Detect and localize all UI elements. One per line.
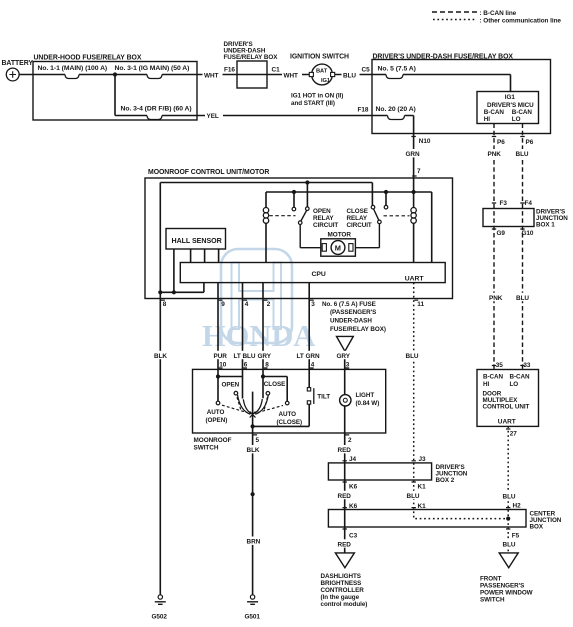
svg-text:C3: C3	[349, 532, 358, 539]
svg-text:MOONROOF CONTROL UNIT/MOTOR: MOONROOF CONTROL UNIT/MOTOR	[148, 169, 269, 176]
svg-text:8: 8	[265, 362, 269, 369]
svg-text:IGNITION SWITCH: IGNITION SWITCH	[290, 53, 349, 60]
svg-text:FRONT: FRONT	[480, 575, 502, 582]
svg-text:GRY: GRY	[337, 353, 351, 360]
svg-text:FUSE/RELAY BOX): FUSE/RELAY BOX)	[330, 326, 386, 333]
svg-text:4: 4	[311, 362, 315, 369]
svg-text:7: 7	[417, 168, 421, 175]
svg-text:RED: RED	[338, 493, 352, 500]
svg-text:PUR: PUR	[214, 353, 228, 360]
svg-text:G501: G501	[245, 613, 261, 620]
svg-text:UART: UART	[498, 418, 516, 425]
svg-text:K1: K1	[418, 484, 427, 491]
svg-text:POWER WINDOW: POWER WINDOW	[480, 589, 533, 596]
svg-text:: B-CAN line: : B-CAN line	[480, 10, 517, 17]
svg-text:3: 3	[346, 362, 350, 369]
svg-text:BLU: BLU	[406, 353, 419, 360]
svg-text:GRY: GRY	[258, 353, 272, 360]
svg-text:MOTOR: MOTOR	[328, 232, 352, 239]
svg-text:MOONROOF: MOONROOF	[194, 437, 232, 444]
svg-text:TILT: TILT	[317, 394, 330, 401]
svg-text:PNK: PNK	[489, 295, 503, 302]
svg-text:No. 5 (7.5 A): No. 5 (7.5 A)	[378, 65, 416, 72]
svg-text:(In the gauge: (In the gauge	[321, 594, 360, 601]
svg-text:UNDER-HOOD FUSE/RELAY BOX: UNDER-HOOD FUSE/RELAY BOX	[34, 55, 142, 62]
svg-text:RELAY: RELAY	[347, 215, 368, 222]
svg-text:9: 9	[221, 301, 225, 308]
svg-text:No. 6 (7.5 A) FUSE: No. 6 (7.5 A) FUSE	[322, 301, 376, 308]
svg-text:HONDA: HONDA	[202, 319, 315, 353]
svg-text:RED: RED	[338, 541, 352, 548]
svg-text:(OPEN): (OPEN)	[206, 417, 228, 424]
svg-text:LO: LO	[510, 381, 519, 388]
svg-text:11: 11	[417, 301, 424, 308]
svg-text:UNDER-DASH: UNDER-DASH	[330, 318, 372, 325]
svg-text:RED: RED	[338, 447, 352, 454]
svg-text:F4: F4	[525, 200, 533, 207]
svg-text:No. 1-1 (MAIN) (100 A): No. 1-1 (MAIN) (100 A)	[38, 65, 108, 72]
svg-text:LT BLU: LT BLU	[234, 353, 256, 360]
svg-text:(CLOSE): (CLOSE)	[277, 419, 303, 426]
svg-text:No. 20 (20 A): No. 20 (20 A)	[376, 106, 416, 113]
svg-text:H2: H2	[513, 503, 522, 510]
svg-text:2: 2	[348, 437, 352, 444]
svg-text:BOX: BOX	[530, 523, 544, 530]
svg-text:OPEN: OPEN	[222, 382, 240, 389]
svg-text:(PASSENGER'S: (PASSENGER'S	[330, 309, 376, 316]
svg-text:B-CAN: B-CAN	[484, 109, 505, 116]
svg-text:HALL SENSOR: HALL SENSOR	[172, 237, 222, 245]
svg-text:HI: HI	[483, 381, 489, 388]
svg-text:CLOSE: CLOSE	[347, 208, 368, 215]
svg-text:N10: N10	[419, 138, 431, 145]
svg-text:IG1 HOT in ON (II): IG1 HOT in ON (II)	[291, 92, 343, 99]
svg-text:BLU: BLU	[503, 541, 516, 548]
svg-text:F16: F16	[224, 66, 235, 73]
svg-text:LO: LO	[512, 116, 521, 123]
svg-text:K6: K6	[349, 484, 358, 491]
svg-text:P6: P6	[526, 139, 534, 146]
svg-text:AUTO: AUTO	[279, 411, 297, 418]
svg-text:BLK: BLK	[154, 353, 167, 360]
svg-text:G9: G9	[497, 230, 506, 237]
svg-text:K1: K1	[418, 503, 427, 510]
svg-text:CLOSE: CLOSE	[264, 381, 285, 388]
svg-text:BLU: BLU	[407, 493, 420, 500]
svg-text:35: 35	[496, 362, 504, 369]
svg-text:YEL: YEL	[207, 113, 219, 120]
svg-text:B-CAN: B-CAN	[512, 109, 533, 116]
svg-text:(0.84 W): (0.84 W)	[356, 400, 380, 407]
svg-text:4: 4	[245, 301, 249, 308]
svg-text:C1: C1	[272, 66, 281, 73]
svg-text:No. 3-1 (IG MAIN) (50 A): No. 3-1 (IG MAIN) (50 A)	[115, 65, 190, 72]
svg-text:27: 27	[510, 430, 518, 437]
svg-text:BOX 2: BOX 2	[436, 477, 455, 484]
svg-text:WHT: WHT	[284, 72, 299, 79]
svg-text:BRN: BRN	[247, 539, 261, 546]
svg-text:J3: J3	[419, 456, 427, 463]
svg-text:CONTROL UNIT: CONTROL UNIT	[483, 403, 530, 410]
svg-text:PNK: PNK	[488, 151, 502, 158]
svg-text:SWITCH: SWITCH	[194, 444, 219, 451]
svg-text:F18: F18	[358, 106, 369, 113]
svg-text:5: 5	[256, 437, 260, 444]
svg-text:and START (III): and START (III)	[291, 100, 335, 107]
svg-text:G10: G10	[522, 230, 534, 237]
svg-text:BLK: BLK	[247, 447, 260, 454]
svg-text:CPU: CPU	[312, 271, 326, 278]
svg-text:C5: C5	[362, 67, 371, 74]
svg-text:WHT: WHT	[204, 72, 219, 79]
svg-text:F5: F5	[512, 532, 520, 539]
svg-text:10: 10	[219, 362, 227, 369]
svg-text:BLU: BLU	[516, 151, 529, 158]
svg-text:UART: UART	[405, 275, 425, 282]
svg-text:BOX 1: BOX 1	[536, 221, 555, 228]
svg-text:GRN: GRN	[406, 151, 420, 158]
svg-text:2: 2	[267, 301, 271, 308]
svg-text:BLU: BLU	[343, 72, 356, 79]
svg-text:BLU: BLU	[503, 493, 516, 500]
svg-text:3: 3	[311, 301, 315, 308]
svg-text:B-CAN: B-CAN	[510, 373, 531, 380]
svg-text:control module): control module)	[321, 601, 368, 608]
svg-text:No. 3-4 (DR F/B) (60 A): No. 3-4 (DR F/B) (60 A)	[121, 106, 192, 113]
svg-text:K6: K6	[349, 503, 358, 510]
svg-text:CIRCUIT: CIRCUIT	[313, 222, 338, 229]
svg-text:BATTERY: BATTERY	[2, 60, 34, 67]
svg-text:6: 6	[244, 362, 248, 369]
svg-text:33: 33	[523, 362, 531, 369]
svg-text:PASSENGER'S: PASSENGER'S	[480, 582, 524, 589]
svg-text:P6: P6	[497, 139, 505, 146]
svg-text:HI: HI	[484, 116, 490, 123]
svg-text:IG1: IG1	[321, 78, 330, 84]
svg-text:AUTO: AUTO	[207, 409, 225, 416]
svg-text:M: M	[335, 243, 341, 252]
svg-text:LIGHT: LIGHT	[356, 392, 375, 399]
svg-text:F3: F3	[500, 200, 508, 207]
svg-text:DRIVER'S UNDER-DASH FUSE/RELAY: DRIVER'S UNDER-DASH FUSE/RELAY BOX	[373, 53, 514, 60]
svg-text:FUSE/RELAY BOX: FUSE/RELAY BOX	[224, 54, 279, 61]
svg-text:LT GRN: LT GRN	[297, 353, 320, 360]
svg-text:RELAY: RELAY	[313, 215, 334, 222]
svg-text:G502: G502	[152, 613, 168, 620]
svg-text:BAT: BAT	[316, 68, 328, 74]
svg-text:8: 8	[163, 301, 167, 308]
svg-text:B-CAN: B-CAN	[483, 373, 504, 380]
svg-text:: Other communication line: : Other communication line	[480, 18, 562, 25]
svg-text:SWITCH: SWITCH	[480, 596, 505, 603]
svg-text:IG1: IG1	[505, 94, 516, 101]
svg-text:BRIGHTNESS: BRIGHTNESS	[321, 580, 362, 587]
svg-text:CIRCUIT: CIRCUIT	[347, 222, 372, 229]
svg-text:OPEN: OPEN	[313, 208, 331, 215]
svg-text:J4: J4	[349, 456, 357, 463]
svg-text:BLU: BLU	[516, 295, 529, 302]
svg-text:CONTROLLER: CONTROLLER	[321, 587, 365, 594]
svg-text:DASHLIGHTS: DASHLIGHTS	[321, 573, 361, 580]
